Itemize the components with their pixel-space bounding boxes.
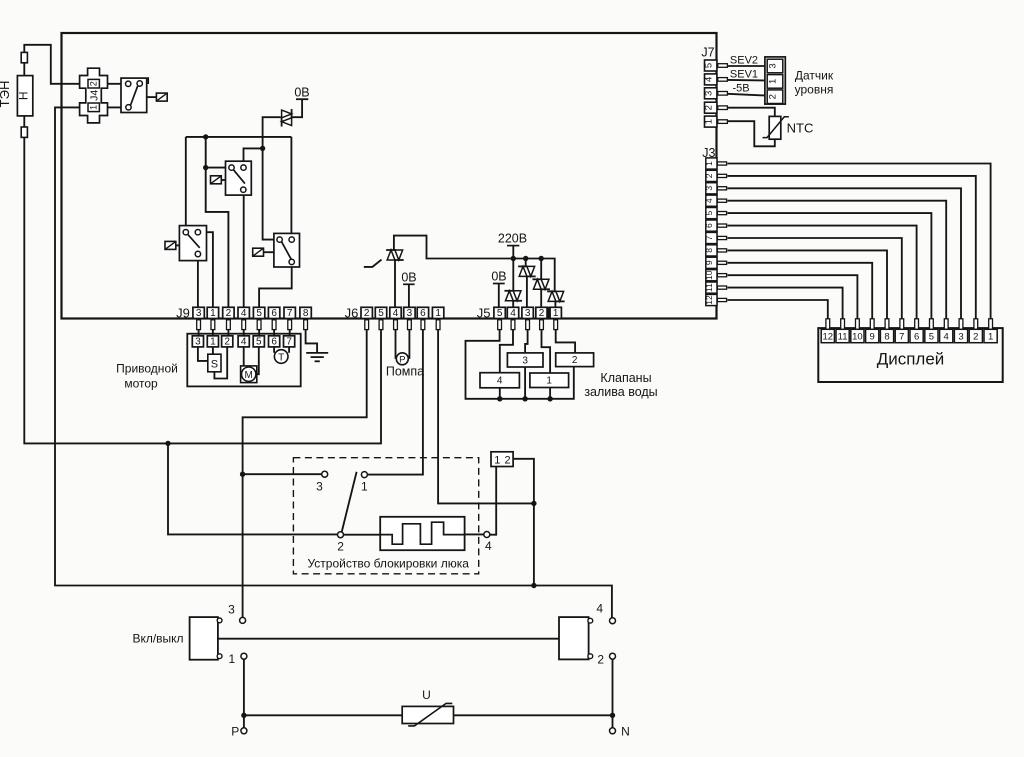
svg-text:5: 5 — [256, 336, 262, 347]
junction: rail / door-lock feed — [531, 583, 536, 588]
svg-text:1: 1 — [229, 652, 236, 666]
switch terminal 4 — [610, 618, 616, 624]
connector J9 pin 1 — [207, 307, 218, 318]
relay K3 (left) — [179, 226, 206, 261]
svg-text:Устройство блокировки люка: Устройство блокировки люка — [307, 557, 469, 571]
wire: TEN fuse1 to body — [23, 63, 25, 76]
control board outline — [62, 33, 717, 319]
display pin 12 — [826, 319, 830, 330]
motor pin 6 — [269, 336, 280, 347]
svg-text:7: 7 — [704, 235, 714, 240]
svg-text:8: 8 — [704, 248, 714, 253]
relay K1 coil — [147, 96, 157, 98]
switch terminal 2 — [610, 653, 616, 659]
wire: mains line P-N through varistor — [244, 714, 613, 716]
motor pin 3 — [192, 336, 203, 347]
svg-text:1: 1 — [89, 105, 99, 110]
svg-text:12: 12 — [704, 295, 714, 305]
wire: J6 pin1 to lock feed node — [438, 330, 534, 504]
svg-text:J6: J6 — [345, 305, 359, 320]
wire: motor pin 3 to tacho S — [198, 347, 208, 361]
wire: tacho S bottom to motor pin 2 — [214, 347, 227, 379]
power switch right body — [559, 617, 589, 659]
motor pin 4 — [238, 336, 249, 347]
svg-text:4: 4 — [485, 539, 492, 553]
wire: J5 pin2 to valve 1 — [542, 330, 551, 373]
display pin 4 — [944, 319, 948, 330]
svg-text:5: 5 — [929, 332, 934, 343]
triac VS5 (valve1) — [533, 279, 541, 289]
svg-text:8: 8 — [303, 308, 309, 319]
display pin 2 — [974, 319, 978, 330]
wire: J9 stub 4 to motor pin — [243, 330, 245, 336]
junction: door-lock terminal3 branch — [240, 472, 245, 477]
wire: J7.1 to NTC bottom — [727, 121, 774, 146]
svg-text:J4: J4 — [89, 90, 101, 101]
svg-text:11: 11 — [704, 283, 714, 292]
junction: lock feed node — [531, 501, 536, 506]
wire: -5V J7.3 to sensor.2 — [727, 94, 765, 96]
svg-text:5: 5 — [378, 308, 384, 319]
connector J9 pin 3 — [193, 307, 204, 318]
svg-text:5: 5 — [704, 63, 715, 68]
svg-text:залива воды: залива воды — [584, 385, 657, 399]
connector J5 pin 5 — [494, 307, 505, 318]
connector J5 pin 3 — [522, 307, 533, 318]
door-lock terminal 2 — [338, 532, 344, 538]
door lock dashed box — [293, 458, 478, 574]
svg-text:7: 7 — [287, 308, 293, 319]
svg-text:5: 5 — [704, 210, 714, 215]
wire: motor pin 6 to thermal T — [273, 347, 275, 353]
svg-text:4: 4 — [510, 308, 516, 319]
wire: J5 pin3 to valve 3 — [525, 330, 528, 353]
connector J3 pin 2 — [706, 170, 717, 181]
wire: connector X1 pin2 down to rail — [513, 459, 534, 586]
svg-text:3: 3 — [525, 308, 531, 319]
wire: door-lock arm — [342, 472, 357, 532]
svg-text:0В: 0В — [294, 86, 309, 100]
svg-text:4: 4 — [497, 376, 503, 387]
wire: relay K3 top-right to J9 pin1 — [198, 232, 213, 307]
svg-text:1: 1 — [210, 336, 216, 347]
wire H1: relay bus — [186, 136, 292, 138]
svg-text:5: 5 — [256, 308, 262, 319]
wire: J3 pin5 to display pin5 — [728, 213, 932, 319]
wire: J9 stub 3 to motor pin — [198, 330, 200, 336]
relay K2 (top middle) — [226, 161, 252, 195]
svg-text:11: 11 — [838, 332, 848, 343]
wire: motor pin 5 to armature M — [256, 347, 259, 374]
svg-text:4: 4 — [241, 336, 247, 347]
junction N — [610, 713, 615, 718]
svg-text:1: 1 — [494, 454, 500, 466]
wire: 220V rail with step over pump triac VS2 — [394, 236, 555, 292]
svg-text:1: 1 — [546, 376, 552, 387]
door-lock PTC element — [380, 517, 464, 550]
door-lock terminal 4 — [484, 532, 490, 538]
drive motor box — [187, 334, 300, 387]
junctions: valve common — [497, 396, 502, 401]
wire: J7.2 to NTC top — [727, 108, 774, 117]
svg-text:12: 12 — [823, 332, 834, 343]
switch terminal 1 — [241, 653, 247, 659]
svg-text:1: 1 — [988, 332, 993, 343]
triac VS1 — [282, 110, 292, 118]
connector J3 pin 6 — [706, 220, 717, 231]
display pin 9 — [870, 319, 874, 330]
svg-text:6: 6 — [914, 332, 919, 343]
connector J3 pin 11 — [706, 282, 717, 293]
wire: relay K3 bottom to J9 pin3 — [197, 254, 199, 308]
svg-text:9: 9 — [870, 332, 875, 343]
connector J7 pin 3 — [705, 88, 717, 99]
wire: SEV2 J7.5 to sensor.3 — [727, 65, 765, 67]
svg-text:3: 3 — [316, 480, 323, 494]
svg-text:Клапаны: Клапаны — [600, 371, 651, 385]
display box — [818, 328, 1002, 382]
wire: switch link bar — [218, 638, 559, 640]
relay K1 stub tick — [147, 77, 149, 84]
terminal N — [610, 728, 616, 734]
wire: VS2 gate — [364, 260, 382, 267]
wire: branch to door-lock terminal 3 — [243, 473, 322, 475]
svg-text:уровня: уровня — [795, 83, 834, 97]
svg-text:2: 2 — [572, 355, 578, 366]
svg-text:3: 3 — [196, 308, 202, 319]
connector J3 pin 10 — [706, 270, 717, 281]
varistor U — [402, 706, 453, 723]
wire: J9 stub 5 to motor pin — [258, 330, 260, 336]
wire: J3 pin10 to display pin10 — [728, 275, 858, 319]
wire: 0V tick to J5 pin5 — [498, 284, 500, 308]
svg-text:-5В: -5В — [732, 82, 749, 94]
connector J3 pin 4 — [706, 195, 717, 206]
connector J6 pin 6 — [417, 307, 428, 318]
junction at relay K2 input — [203, 165, 208, 170]
wire: TEN body to fuse2 — [23, 116, 25, 128]
svg-text:S: S — [211, 358, 218, 370]
display pin 7 — [900, 319, 904, 330]
wire: J4 pin1 row to bottom rail — [55, 107, 612, 618]
svg-text:Датчик: Датчик — [795, 69, 834, 83]
svg-text:2: 2 — [539, 308, 545, 319]
valve 3 — [507, 353, 543, 367]
display pin 3 — [959, 319, 963, 330]
connector J7 pin 1 — [705, 116, 717, 127]
wire: terminal 2 to N — [612, 659, 614, 728]
connector J5 pin 4 — [507, 307, 518, 318]
svg-text:4: 4 — [704, 198, 714, 203]
wire: motor pin 1 to tacho S top — [212, 347, 214, 354]
junction: heater net — [165, 441, 170, 446]
svg-text:Приводной: Приводной — [116, 362, 178, 376]
thermal protector T — [274, 350, 288, 364]
connector J4 pin 2 — [88, 79, 99, 88]
svg-text:2: 2 — [89, 81, 99, 86]
svg-text:3: 3 — [407, 308, 413, 319]
connector J3 pin 8 — [706, 245, 717, 256]
level sensor pin 3 — [767, 59, 783, 73]
pump P — [396, 353, 408, 365]
power switch left body — [190, 617, 218, 660]
connector J6 pin 4 — [390, 307, 401, 318]
wire: J9 pin8 to ground — [306, 330, 318, 353]
wire: J3 pin12 to display pin12 — [728, 300, 828, 319]
wire: J3 pin6 to display pin6 — [728, 226, 917, 319]
connector J4 body — [80, 68, 108, 123]
wire: J9 stub 2 to motor pin — [227, 330, 229, 336]
motor pin 1 — [207, 336, 218, 347]
connector J9 pin 4 — [238, 307, 249, 318]
triac VS4 (valve3) — [519, 266, 527, 276]
wires: J6 pins 4,3 to pump — [395, 330, 397, 359]
svg-text:U: U — [422, 688, 431, 702]
svg-text:J7: J7 — [701, 46, 714, 60]
connector J6 pin 3 — [404, 307, 415, 318]
motor pin 2 — [222, 336, 233, 347]
connector J3 pin 7 — [706, 232, 717, 243]
connector X1 "1 2" — [491, 452, 513, 467]
connector J7 pin 4 — [705, 74, 717, 85]
svg-text:2: 2 — [505, 454, 511, 466]
tacho generator S — [208, 354, 221, 372]
relay K4 coil — [253, 248, 264, 256]
wire: J3 pin7 to display pin7 — [728, 238, 902, 319]
wire: J9 stub 1 to motor pin — [212, 330, 214, 336]
svg-text:10: 10 — [704, 270, 714, 280]
display pin 8 — [885, 319, 889, 330]
connector J6 pin 5 — [375, 307, 386, 318]
wire: J5 pin1 to valve 2 — [556, 330, 575, 353]
svg-text:1: 1 — [361, 480, 368, 494]
svg-text:3: 3 — [195, 336, 201, 347]
door-lock terminal 3 — [322, 471, 328, 477]
wire: SEV1 J7.4 to sensor.1 — [727, 79, 765, 82]
svg-text:6: 6 — [271, 336, 277, 347]
connector J9 pin 2 — [223, 307, 234, 318]
wire: VS2 bottom to J6 pin4 — [394, 260, 396, 308]
connector J7 pin 2 — [705, 102, 717, 113]
relay K4 (right) — [274, 233, 300, 267]
svg-text:мотор: мотор — [124, 377, 158, 391]
svg-text:8: 8 — [884, 332, 889, 343]
relay K2 coil — [211, 176, 222, 184]
relay K3 coil — [165, 241, 176, 249]
thermistor NTC — [769, 116, 781, 139]
motor pin 7 — [284, 336, 295, 347]
svg-text:1: 1 — [768, 79, 779, 84]
wire: J3 pin11 to display pin11 — [728, 288, 843, 319]
connector J3 pin 3 — [706, 183, 717, 194]
svg-text:Дисплей: Дисплей — [877, 350, 945, 369]
wire: J9 stub 6 to motor pin — [273, 330, 275, 336]
svg-text:6: 6 — [271, 308, 277, 319]
wire: 220V tick to rail — [512, 246, 514, 259]
svg-text:Р: Р — [231, 725, 239, 739]
door-lock terminal 1 — [361, 472, 367, 478]
svg-text:ТЭН: ТЭН — [0, 81, 12, 108]
triac VS6 (valve2) — [548, 291, 556, 301]
svg-text:7: 7 — [286, 336, 292, 347]
svg-text:4: 4 — [393, 308, 399, 319]
wire: terminal2 to PTC to terminal4 — [344, 534, 381, 536]
junctions on 220V rail — [511, 256, 516, 261]
svg-text:3: 3 — [958, 332, 963, 343]
svg-text:Помпа: Помпа — [386, 365, 424, 379]
svg-text:2: 2 — [704, 105, 715, 110]
svg-text:10: 10 — [852, 332, 863, 343]
svg-text:1: 1 — [704, 119, 715, 124]
svg-text:4: 4 — [944, 332, 949, 343]
wire: J3 pin8 to display pin8 — [728, 250, 888, 318]
connector J7 pin 5 — [705, 60, 717, 71]
relay K1 (heater relay) — [121, 78, 147, 112]
wire: motor pin 7 to thermal T — [288, 347, 290, 353]
svg-text:Н: Н — [17, 91, 31, 100]
wire: J5 pin5 bracket to valves common — [466, 330, 574, 399]
svg-text:1: 1 — [553, 308, 559, 319]
motor pin 5 — [253, 336, 264, 347]
wire: J3 pin2 to display pin2 — [728, 176, 976, 319]
svg-text:3: 3 — [768, 63, 779, 68]
connector J5 pin 1 — [550, 307, 561, 318]
svg-text:2: 2 — [973, 332, 978, 343]
svg-text:2: 2 — [226, 308, 232, 319]
svg-text:SEV2: SEV2 — [730, 55, 758, 67]
connector J9 pin 5 — [253, 307, 264, 318]
wire: J9 stub 7 to motor pin — [289, 330, 291, 336]
wire: 0V label to triac VS1 — [292, 99, 302, 117]
wire: terminal 1 to P — [243, 659, 245, 728]
svg-text:J5: J5 — [477, 305, 491, 320]
display pin 5 — [930, 319, 934, 330]
valve 4 — [480, 373, 519, 388]
svg-text:7: 7 — [899, 332, 904, 343]
fuse F2 (TEN bottom) — [21, 127, 27, 137]
connector J6 pin 2 — [361, 307, 372, 318]
svg-text:0В: 0В — [401, 270, 416, 284]
connector J3 pin 1 — [706, 158, 717, 169]
terminal P — [241, 728, 247, 734]
connector J3 pin 12 — [706, 294, 717, 305]
wire: relay K4 bottom to J9 pin5 — [259, 262, 292, 308]
svg-text:3: 3 — [704, 186, 714, 191]
svg-text:2: 2 — [337, 540, 344, 554]
svg-text:Т: Т — [278, 352, 284, 363]
triac VS3 (valve4) — [505, 291, 513, 301]
connector J3 pin 5 — [706, 208, 717, 219]
junction on H1 — [203, 134, 208, 139]
wire: J3 pin3 to display pin3 — [728, 188, 962, 318]
level sensor pin 1 — [767, 75, 783, 89]
wire: H1 to relay K4 top-right — [290, 137, 292, 240]
display pin 11 — [841, 319, 845, 330]
wire: J6 pin2 to power switch terminal 3 — [243, 330, 367, 618]
connector J9 pin 8 — [300, 307, 311, 318]
svg-text:N: N — [621, 725, 630, 739]
motor armature M — [241, 366, 257, 383]
level sensor pin 2 — [767, 90, 783, 104]
svg-text:9: 9 — [704, 260, 714, 265]
triac VS2 (pump) — [387, 250, 395, 260]
junction P — [241, 713, 246, 718]
ground symbol — [306, 352, 328, 354]
svg-text:4: 4 — [596, 602, 603, 616]
svg-text:3: 3 — [522, 355, 528, 366]
svg-text:М: М — [245, 370, 253, 381]
connector J6 pin 1 — [432, 307, 443, 318]
wire: rail to valve triacs VS3-VS6 — [512, 259, 514, 292]
svg-text:2: 2 — [597, 653, 604, 667]
valve 2 — [556, 353, 594, 367]
connector J9 pin 7 — [284, 307, 295, 318]
wire: J3 pin9 to display pin9 — [728, 263, 873, 319]
connector J5 pin 2 — [536, 307, 547, 318]
wire: heater net branch to door-lock terminal 2 — [168, 443, 338, 534]
connector J9 pin 6 — [268, 307, 279, 318]
wire: motor pin 4 to armature M — [243, 347, 245, 366]
svg-text:6: 6 — [420, 308, 426, 319]
wire: triac VS1 left lead down to relay K4 top-left — [263, 117, 281, 239]
svg-text:1: 1 — [210, 308, 216, 319]
svg-text:4: 4 — [241, 308, 247, 319]
svg-text:3: 3 — [228, 603, 235, 617]
svg-text:2: 2 — [768, 94, 779, 99]
wire: J3 pin4 to display pin4 — [728, 201, 947, 319]
display pin 6 — [915, 319, 919, 330]
valve 1 — [530, 373, 569, 388]
wire: connector X1 pin1 to door-lock terminal 4 — [490, 467, 496, 535]
junction VS1 lead — [260, 146, 265, 151]
fuse F1 (TEN top) — [21, 52, 27, 62]
display pin 10 — [856, 319, 860, 330]
display pin 1 — [989, 319, 993, 330]
wire: 0V tick to J6 pin3 — [408, 284, 410, 307]
wire: J5 pin4 to valve 4 — [500, 330, 513, 373]
wire: H1 to relay K2 and J9 pin2 — [206, 137, 229, 308]
level sensor connector — [765, 57, 785, 104]
wires: valve bottoms to common — [499, 388, 501, 399]
wire: J3 pin1 to display pin1 — [728, 164, 991, 319]
connector J3 pin 9 — [706, 257, 717, 268]
svg-text:NTC: NTC — [787, 121, 814, 136]
svg-text:J9: J9 — [176, 305, 190, 320]
svg-text:2: 2 — [704, 173, 714, 178]
wire: TEN bottom down to heater net — [24, 137, 381, 443]
svg-text:Вкл/выкл: Вкл/выкл — [132, 632, 183, 646]
svg-text:3: 3 — [704, 91, 715, 96]
connector J4 pin 1 — [88, 103, 99, 112]
svg-text:1: 1 — [435, 308, 441, 319]
svg-text:6: 6 — [704, 223, 714, 228]
wire: H1 to relay K3 top-left — [185, 137, 187, 232]
svg-text:4: 4 — [704, 77, 715, 82]
svg-text:2: 2 — [364, 308, 370, 319]
svg-text:0В: 0В — [491, 270, 506, 284]
heating element body H — [17, 76, 32, 116]
switch terminal 3 — [240, 617, 246, 623]
svg-text:1: 1 — [704, 161, 714, 166]
svg-text:SEV1: SEV1 — [730, 68, 758, 80]
svg-text:220В: 220В — [498, 232, 527, 246]
wire: gate branch to relay K2 top-right — [244, 148, 263, 167]
wire: TEN top to J4 pin2 row — [24, 45, 128, 84]
svg-text:2: 2 — [224, 336, 230, 347]
connector J5 key block — [547, 307, 550, 318]
svg-text:5: 5 — [497, 308, 503, 319]
wire: relay K2 bottom to J9 pin4 — [243, 190, 245, 308]
